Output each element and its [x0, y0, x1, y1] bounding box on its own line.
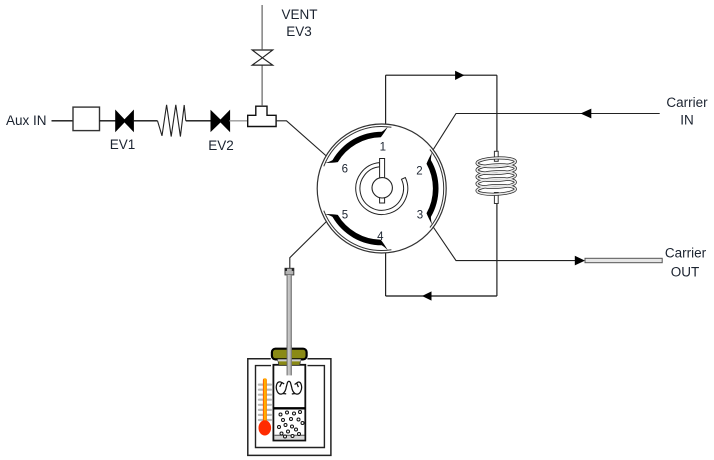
thermometer ticks [258, 384, 272, 422]
wire tee to port 6 [276, 121, 332, 161]
tee fitting [248, 106, 276, 126]
vent valve EV3 [252, 50, 273, 65]
vial bottom glass [275, 435, 305, 439]
arrow loop top [455, 71, 464, 80]
valve EV2 [211, 111, 230, 131]
needle [287, 275, 292, 376]
vial body [273, 365, 305, 441]
thermometer stem [263, 378, 267, 428]
arrow carrier out [575, 256, 585, 266]
sample loop coil [494, 151, 498, 161]
sample loop bottom wire [386, 295, 497, 297]
svg-text:Carrier: Carrier [665, 246, 707, 261]
rotor center circle [372, 178, 392, 198]
wire vent up [261, 5, 263, 50]
svg-text:EV3: EV3 [286, 24, 312, 39]
valve EV1 [116, 111, 134, 131]
restrictor zigzag [158, 105, 186, 137]
bubbles [278, 411, 305, 439]
svg-text:Aux IN: Aux IN [6, 113, 47, 128]
rotor ring [356, 163, 408, 215]
rotor stem [380, 159, 385, 204]
heater inner box [256, 366, 325, 448]
svg-text:IN: IN [680, 113, 694, 128]
inlet box [73, 107, 100, 131]
sample loop top wire [386, 74, 497, 76]
wire EV1 to restrictor [133, 120, 158, 122]
rotor channel 6-1 [324, 127, 392, 167]
svg-text:3: 3 [417, 210, 423, 222]
arrow carrier in [581, 109, 592, 119]
needle lower part [287, 345, 292, 375]
svg-text:EV1: EV1 [110, 137, 136, 152]
svg-text:Carrier: Carrier [666, 95, 708, 110]
heater outer box [248, 359, 331, 456]
svg-text:1: 1 [380, 142, 386, 154]
thermometer bulb [259, 420, 272, 435]
carrier out tube [585, 258, 662, 262]
svg-text:6: 6 [342, 164, 348, 176]
rotor channel 2-3 [427, 150, 444, 228]
svg-text:OUT: OUT [671, 265, 700, 280]
needle fitting [285, 268, 294, 275]
svg-text:5: 5 [342, 210, 348, 222]
wire port 1 [385, 75, 387, 129]
vapor swirl [276, 381, 301, 394]
wire EV2 to tee [229, 120, 248, 122]
wire port 3 to carrier out [430, 222, 577, 261]
wire port 5 to needle [290, 218, 330, 268]
vial cap [272, 349, 307, 360]
svg-text:2: 2 [416, 166, 422, 178]
wire tee to vent valve [261, 65, 263, 106]
wire port 2 to carrier in [430, 114, 660, 156]
liquid surface [273, 407, 305, 409]
sample loop right wire bottom [496, 203, 498, 296]
rotor channel 4-5 [324, 211, 392, 251]
svg-text:VENT: VENT [281, 7, 317, 22]
arrow loop bottom [422, 291, 432, 300]
vial neck [278, 359, 301, 365]
wire restrictor to EV2 [186, 120, 211, 122]
svg-text:4: 4 [377, 231, 384, 243]
valve body circle [317, 124, 446, 253]
wire port 4 [385, 247, 387, 297]
wire box to EV1 [100, 120, 117, 122]
wire aux inlet [52, 120, 74, 122]
svg-text:EV2: EV2 [208, 138, 234, 153]
sample loop right wire top [496, 75, 498, 151]
